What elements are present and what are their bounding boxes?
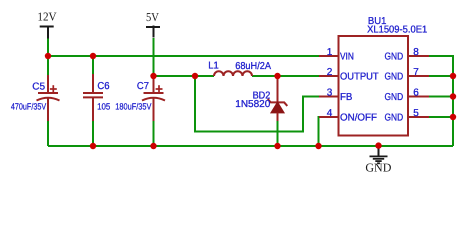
- svg-text:OUTPUT: OUTPUT: [340, 72, 379, 83]
- junction node GND bus / pin 7: [450, 73, 456, 79]
- svg-text:GND: GND: [385, 92, 404, 103]
- svg-text:C7: C7: [137, 81, 149, 92]
- pin 2 OUTPUT: [319, 67, 379, 83]
- capacitor C6 (105): [83, 56, 110, 146]
- capacitor C7 (polarized 180uF/35V): [115, 76, 165, 146]
- wire output node to L1: [154, 75, 215, 77]
- diode BD2 1N5820 (schottky): [235, 76, 287, 146]
- svg-text:C5: C5: [32, 81, 45, 92]
- svg-text:GND: GND: [385, 72, 404, 83]
- wire pin4 ON/OFF down to ground rail: [319, 117, 320, 146]
- svg-text:C6: C6: [97, 81, 110, 92]
- junction node ground rail / C6: [90, 143, 96, 149]
- polarity plus mark C5: [50, 88, 57, 90]
- svg-text:12V: 12V: [37, 10, 57, 24]
- svg-text:GND: GND: [385, 113, 404, 124]
- polarity plus mark C7: [156, 88, 163, 90]
- svg-text:68uH/2A: 68uH/2A: [235, 61, 271, 72]
- svg-text:4: 4: [327, 108, 333, 119]
- junction node 12V rail / C6: [90, 53, 96, 59]
- wire FB feedback loop from output node to pin3: [195, 76, 319, 132]
- pin 6 GND: [385, 87, 430, 103]
- svg-text:470uF/35V: 470uF/35V: [11, 102, 46, 112]
- IC BU1 XL1509-5.0E1: [339, 16, 428, 135]
- inductor L1 68uH/2A: [208, 61, 271, 76]
- power port 12V: [37, 10, 57, 39]
- svg-text:105: 105: [97, 101, 110, 111]
- pin 4 ON/OFF: [319, 108, 377, 124]
- svg-text:7: 7: [413, 67, 419, 78]
- junction node switch node / diode BD2: [274, 73, 280, 79]
- junction node ground rail / ground symbol: [375, 142, 381, 148]
- junction node 5V / C7 / output rail: [150, 73, 156, 79]
- svg-text:GND: GND: [385, 52, 404, 63]
- capacitor C5 (polarized 470uF/35V): [11, 56, 60, 146]
- svg-text:5V: 5V: [146, 10, 159, 24]
- svg-text:3: 3: [327, 87, 333, 98]
- ground symbol GND: [365, 146, 391, 174]
- svg-text:5: 5: [413, 108, 419, 119]
- svg-text:GND: GND: [365, 160, 391, 174]
- svg-text:FB: FB: [340, 92, 353, 103]
- pin 7 GND: [385, 67, 430, 83]
- pin 1 VIN: [319, 47, 354, 63]
- svg-text:XL1509-5.0E1: XL1509-5.0E1: [367, 24, 428, 35]
- svg-text:ON/OFF: ON/OFF: [340, 113, 377, 124]
- svg-text:L1: L1: [208, 61, 219, 72]
- svg-text:180uF/35V: 180uF/35V: [115, 102, 151, 112]
- svg-text:8: 8: [413, 47, 419, 58]
- junction node ground rail / diode BD2: [274, 143, 280, 149]
- svg-text:1: 1: [327, 47, 333, 58]
- junction node GND bus / pin 6: [450, 93, 456, 99]
- svg-text:6: 6: [413, 87, 419, 98]
- wire 12V port to top rail: [47, 39, 49, 57]
- wire top rail 12V to pin1 VIN: [48, 55, 319, 57]
- junction node GND bus / pin 5: [450, 114, 456, 120]
- junction node 12V rail / C5: [45, 53, 51, 59]
- power port 5V: [146, 10, 160, 38]
- wire GND bus right of IC (pins 8,7,6,5): [429, 55, 453, 146]
- pin 3 FB: [319, 87, 353, 103]
- junction node ground rail / C7: [150, 143, 156, 149]
- svg-text:1N5820: 1N5820: [235, 99, 270, 110]
- junction node ground rail / pin4: [315, 143, 321, 149]
- wire L1 to diode node to pin2 OUTPUT: [252, 75, 319, 77]
- svg-text:VIN: VIN: [340, 52, 354, 63]
- junction node output rail / FB tap: [192, 73, 198, 79]
- wire bottom ground rail: [48, 145, 453, 147]
- pin 5 GND: [385, 108, 430, 124]
- svg-text:2: 2: [327, 67, 333, 78]
- wire 5V port down to output node (crosses 12V rail, no junction): [153, 38, 155, 76]
- pin 8 GND: [385, 47, 430, 63]
